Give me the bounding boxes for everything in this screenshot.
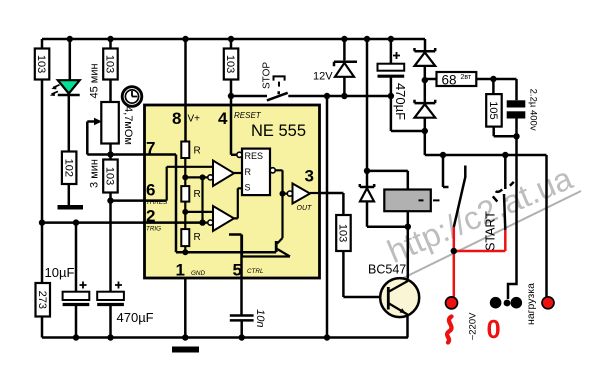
svg-text:R: R bbox=[245, 167, 252, 177]
svg-text:12V: 12V bbox=[313, 71, 333, 83]
svg-text:S: S bbox=[245, 183, 251, 193]
svg-text:0: 0 bbox=[487, 316, 501, 344]
svg-text:470µF: 470µF bbox=[393, 83, 408, 120]
svg-text:R: R bbox=[194, 232, 201, 243]
svg-text:273: 273 bbox=[36, 291, 48, 309]
svg-text:3 мин: 3 мин bbox=[89, 159, 101, 188]
svg-text:START: START bbox=[483, 211, 497, 251]
svg-text:68: 68 bbox=[442, 73, 457, 88]
svg-text:6: 6 bbox=[146, 181, 155, 200]
svg-text:2вт: 2вт bbox=[461, 74, 472, 81]
svg-text:CTRL: CTRL bbox=[247, 268, 264, 275]
svg-text:470µF: 470µF bbox=[117, 310, 154, 325]
svg-text:4,7мОм: 4,7мОм bbox=[122, 106, 134, 145]
svg-text:RES: RES bbox=[245, 151, 264, 161]
svg-text:R: R bbox=[194, 146, 201, 157]
svg-text:45 мин: 45 мин bbox=[89, 63, 101, 98]
svg-text:BC547: BC547 bbox=[368, 263, 406, 277]
svg-text:5: 5 bbox=[233, 261, 242, 280]
svg-text:10n: 10n bbox=[254, 309, 266, 327]
svg-text:8: 8 bbox=[172, 109, 181, 128]
svg-text:~220V: ~220V bbox=[468, 312, 479, 340]
svg-text:2: 2 bbox=[146, 207, 155, 226]
svg-text:STOP: STOP bbox=[262, 62, 273, 89]
svg-text:103: 103 bbox=[224, 55, 236, 73]
svg-text:THRES: THRES bbox=[146, 199, 168, 206]
svg-text:4: 4 bbox=[218, 109, 228, 128]
svg-text:105: 105 bbox=[487, 101, 499, 119]
svg-text:NE 555: NE 555 bbox=[251, 122, 306, 140]
svg-text:OUT: OUT bbox=[297, 205, 313, 212]
svg-text:TRIG: TRIG bbox=[146, 226, 161, 233]
svg-text:10µF: 10µF bbox=[45, 265, 75, 280]
svg-text:2.2µ 400v: 2.2µ 400v bbox=[528, 89, 539, 131]
svg-text:V+: V+ bbox=[188, 114, 201, 125]
svg-text:3: 3 bbox=[305, 167, 314, 186]
svg-text:103: 103 bbox=[337, 224, 349, 242]
svg-text:1: 1 bbox=[176, 261, 185, 280]
svg-text:103: 103 bbox=[35, 55, 47, 73]
svg-text:нагрузка: нагрузка bbox=[525, 283, 537, 325]
svg-text:102: 102 bbox=[62, 159, 74, 177]
svg-text:7: 7 bbox=[146, 139, 155, 158]
svg-text:RESET: RESET bbox=[234, 111, 262, 120]
svg-text:R: R bbox=[194, 189, 201, 200]
svg-text:103: 103 bbox=[104, 55, 116, 73]
svg-text:103: 103 bbox=[104, 167, 116, 185]
svg-text:GND: GND bbox=[191, 270, 205, 277]
